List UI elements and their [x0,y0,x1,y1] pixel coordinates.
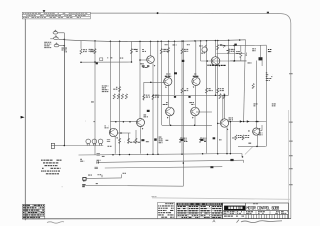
right inner border [288,110,290,219]
notes block [41,160,43,161]
wire V195b [194,86,196,108]
junction dot 19 [147,154,149,156]
fold mark 5 [289,168,292,169]
resistor R22 [135,138,137,143]
junction dot 11 [129,121,131,123]
wire V182 [181,41,183,153]
junction dot 9 [115,121,117,123]
wire h112 mid [196,111,212,113]
junction dot rail 11 [183,40,185,42]
junction dot 38 [224,95,226,97]
label rectifier [248,142,251,145]
resistor R18 [143,94,145,99]
wire base stub Q9 [218,122,221,124]
rectifier box bottom [238,145,266,147]
fold mark 4 [289,155,292,156]
value label 6 [111,56,113,59]
transistor Q10 [253,128,260,135]
junction dot rail 17 [228,39,230,41]
emitter arrow Q10 [259,128,261,130]
fuse F2 [54,37,59,40]
resistor R23 [179,137,181,142]
junction dot 35 [211,166,213,168]
value label 30 [254,103,256,106]
junction dot 36 [152,95,154,97]
value label 16 [80,158,82,161]
emitter arrow Q9 [227,128,229,130]
value label 36 [94,120,95,123]
diode CR5 [147,110,150,112]
label Q4 [193,76,196,77]
junction dot rail 7 [161,41,163,43]
junction dot 6 [233,60,235,62]
junction dot rail 16 [217,40,219,42]
wire V215 collector Q2 [215,41,217,57]
wire V243 bus drop2 [243,160,245,163]
value label 35 [85,120,87,123]
value label 24 [187,43,188,46]
fold mark 6 [289,184,292,185]
wire V215b emitter Q2 [215,65,217,95]
potentiometer P1 [202,47,207,52]
wire V222 [222,95,224,121]
wire V240 stub2 [240,57,242,60]
junction dot 2 [131,61,133,63]
value label 31 [272,103,274,106]
junction dot 13 [150,82,152,84]
emitter arrow Q5 [167,117,169,119]
pencil note left [47,222,64,224]
value label 27 [248,62,250,65]
value label 37 [130,141,133,144]
title col lines [229,211,270,215]
wire V140 collector Q7 [139,41,141,118]
emitter arrow Q8 [117,137,119,139]
component X1 [100,58,103,61]
wire h95 collector bus [153,94,229,96]
diode CR7 [174,96,176,98]
resistor R15 [117,94,119,99]
junction dot 17 [119,154,121,156]
resistor R28 [219,94,221,99]
wire h61 base Q2 [201,60,247,62]
junction dot rail 13 [200,40,202,42]
value label 17 [97,159,100,162]
diode CR4 [259,57,263,60]
right border [290,23,292,219]
diode CR6 [141,139,144,141]
rectifier box top [228,121,267,123]
junction dot 26 [230,153,232,155]
wire V266 wrap [265,45,267,146]
junction dot rail 14 [206,40,208,42]
resistor R25 [235,135,237,140]
sheet number ruler [246,214,288,218]
transistor Q1 [147,56,155,64]
label Q6 [189,101,192,104]
junction dot 3 [80,61,82,63]
value label 3 [142,48,144,51]
wire top border right segment [158,13,291,23]
stamp block [158,203,175,219]
logo plate [224,206,245,211]
label 2N Q2 [207,65,208,66]
value label 10 [227,49,229,52]
junction dot rail 9 [174,40,176,42]
junction dot 22 [181,153,183,155]
fold mark 2 [289,122,292,123]
wire V240 stub [240,45,242,52]
value label 1 [90,48,91,51]
junction dot 10 [123,121,125,123]
capacitor C3 [107,140,110,142]
value label 40 [133,141,135,144]
value label 28 [232,137,234,140]
emitter arrow Q6 [192,117,194,119]
tick T1 [101,175,103,177]
junction dot rail 8 [168,41,170,43]
wire V168 collector Q3 [168,41,170,77]
value label 45 [219,138,221,141]
wire V128 stub [128,133,130,144]
lamp DS3 [98,139,103,145]
junction dot 30 [256,146,258,148]
wire h60 relay [230,60,246,62]
value label 25 [220,43,222,46]
wire main rail [58,39,245,41]
junction dot 23 [202,153,204,155]
terminal T1 [83,178,86,181]
resistor R7 [217,45,219,50]
wire V131 [131,41,133,62]
diode CR17 [96,63,98,65]
fuse F1 [53,32,58,35]
resistor R16 [121,94,123,99]
input labels [44,41,47,44]
junction dot rail 4 [139,41,141,43]
emitter arrow Q7 [142,128,144,130]
wire V206 [206,41,208,154]
label 2N Q1 [142,65,145,66]
left border [24,19,26,220]
transistor Q2 [211,57,220,66]
zone arrow on left border [21,116,25,119]
value label 41 [146,140,149,143]
resistor R29 [223,94,225,99]
diode CR1 [240,120,243,122]
transistor Q9 [220,119,228,127]
diode CR16 [182,60,185,62]
label T1b [123,172,125,175]
resistor R5 [160,49,162,54]
resistor R14 [113,94,115,99]
thermal switch S1 [51,143,54,148]
junction dot 16 [112,154,114,156]
resistor R4 [167,48,169,53]
title row smudge [224,216,227,217]
resistor R2 [80,49,82,54]
junction dot 1 [94,61,96,63]
wire h133 Q8 out [118,132,131,134]
junction dot 12 [120,132,122,134]
junction dot fuse rail2 [64,45,66,47]
terminal T2 [82,184,85,185]
emitter arrow Q1 [154,65,156,67]
junction dot 5 [206,60,208,62]
resistor R21 [127,138,129,143]
capacitor C2 [95,167,98,169]
resistor R13 [252,84,254,89]
label Q10 [259,132,262,135]
value label 14 [159,136,162,139]
label Q8 [105,125,106,128]
diode CR2 [247,120,250,122]
junction dot 8 [64,145,66,147]
wire V231 [229,122,231,154]
wire base stub Q10b [261,125,263,131]
value label 15 [102,155,104,158]
wire V200 [200,41,202,61]
title text [246,206,248,209]
transistor Q5 [166,107,175,116]
wire h167 bus [105,167,223,168]
fold mark 1 [289,73,292,74]
pencil mark A [213,220,216,223]
junction dot rail 10 [181,40,183,42]
wire V183 long [182,41,184,186]
diode CR15 [234,44,236,46]
wire V-fuse [64,40,66,146]
wire V168b [168,86,170,108]
wire h62 [81,61,132,63]
wire V228 [228,40,230,95]
value label 11 [252,47,254,50]
resistor R6 [181,49,183,54]
transistor Q3 [164,77,172,85]
value label 26 [120,57,121,60]
resistor R27 [119,87,121,92]
wire V168c [169,116,171,126]
wire V224 collector Q9 [224,95,226,119]
diode CR11 [200,139,203,141]
wire V81 stub [80,41,82,49]
slash mark [245,147,253,155]
node label A [62,47,65,50]
value label 8 [203,50,205,53]
pencil label [152,195,155,198]
value label 4 [164,48,166,51]
wire V161 [160,41,162,125]
pencil note right [241,221,282,223]
emitter arrow Q2 [219,65,221,67]
connector J3 [97,161,99,163]
junction dot 20 [152,154,154,156]
wire h125 base bus R [162,124,212,126]
wire base stub Q10 [259,130,262,132]
wire V153 emitter Q1 [152,64,154,154]
title block frame [223,203,289,219]
junction dot top border [157,12,159,14]
resistor R10 [205,88,207,93]
diode CR10 [181,139,184,141]
junction dot secondary rail L [224,45,226,47]
wire base stub Q8 [109,132,110,134]
junction dot 32 [217,123,219,125]
value label 19 [96,182,98,185]
resistor R8 [228,49,230,54]
junction dot 21 [157,154,159,156]
wire rail end drop [244,40,246,122]
wire V174 [174,41,176,95]
value label 23 [165,43,166,46]
wire V143 stub [143,82,145,100]
wire V257 emitter Q10 [256,135,258,146]
fold mark 3 [289,141,292,142]
value label 18 [98,173,99,176]
value label 32 [248,130,250,133]
junction dot 28 [256,121,258,123]
junction dot rail 1 [94,40,96,42]
wire V136 stub [135,130,137,144]
junction dot 4 [139,59,141,61]
value label 20 [83,180,84,183]
mark on top border [267,12,269,14]
approval table [23,204,45,219]
junction dot 27 [243,121,245,123]
value label 42 [184,140,185,143]
value label 22 [173,44,176,47]
wire V260 feed [259,45,261,57]
title info row [224,210,226,213]
junction dot fuse rail [64,39,66,41]
wire fuse drop [63,33,65,146]
bottom border [22,218,291,220]
resistor R12 [181,88,183,93]
terminal marks right [268,49,269,50]
lamp DS1 [86,139,91,145]
junction dot rail 15 [215,40,217,42]
wire V95b [94,62,96,155]
value label 29 [242,137,245,140]
wire V195c [194,116,196,126]
junction dot 14 [170,125,172,127]
wire V95 [94,41,96,62]
value label 33 [91,101,94,104]
diode CR9 [154,138,157,140]
value label 34 [108,145,110,148]
resistor R17 [125,94,127,99]
value label 43 [204,140,206,143]
value label 2 [134,48,136,51]
junction dot secondary rail [233,45,235,47]
junction dot rail 12 [194,40,196,42]
label Q7 [144,114,147,117]
parts list table [177,203,223,219]
wire V115 emitter Q8 [114,137,116,154]
revision marker triangle [43,10,46,12]
diode CR13 [210,166,213,168]
transistor Q7 [137,119,145,127]
junction dot 7 [234,60,236,62]
wire V195 collector Q4 [195,41,197,78]
value label 38 [138,141,141,144]
value label 44 [166,139,169,142]
label Q3 [165,76,168,77]
value label 12 [102,85,104,88]
emitter arrow Q4 [193,86,195,88]
junction dot rail 6 [157,41,159,43]
wire h161 bus [98,160,244,162]
junction dot 29 [230,121,232,123]
wire h145 lamp row [65,145,104,147]
junction dot 33 [242,156,244,158]
wire base stub Q7 [137,121,138,124]
value label 21 [61,185,63,188]
wire V119 [119,41,121,153]
resistor R3 [130,49,132,54]
wire secondary rail [222,44,267,47]
resistor R1 [94,49,96,54]
resistor R24 [199,137,201,142]
junction dot 25 [226,153,228,155]
resistor R20 [119,138,121,143]
title caption [253,202,255,205]
diode CR14 [230,159,233,161]
wire T1 lead [86,177,121,180]
transistor Q4 [192,77,200,85]
wire V217 [217,40,219,153]
junction dot rail 18 [239,39,241,41]
resistor R19 [152,94,154,99]
wire h82 base Q3 [144,81,165,83]
wire top border left segment [90,12,157,14]
junction dot rail 2 [110,40,112,42]
junction dot 37 [215,95,217,97]
wire V150 collector Q1 [150,41,152,55]
wire V262 stub [261,61,263,67]
wire V110 base Q8 [109,41,111,132]
capacitor C1 [97,154,100,156]
pencil line lower [152,198,290,200]
wire T1 jog [120,174,122,178]
value label 9 [236,50,237,53]
value label 7 [140,62,143,65]
wire h154 bus [79,154,243,156]
resistor R9 [240,52,242,57]
junction dot rail 3 [119,41,121,43]
diode CR8 [188,96,190,98]
wire lamp feed [55,145,65,147]
wire T2 lead [86,184,183,187]
value label 5 [106,56,109,59]
label Q5 [166,101,168,104]
fuse F3 [54,44,59,47]
wire V256 collector Q10 [255,61,257,129]
emitter arrow Q3 [165,86,167,88]
revision table [22,12,90,19]
lamp DS2 [92,139,97,145]
wire V234 [234,45,236,61]
resistor R26 [242,135,244,140]
diode CR3 [174,72,177,74]
wire V140b emitter Q7 [140,127,142,154]
junction dot rail 5 [150,41,152,43]
junction dot 31 [257,121,259,123]
value label 39 [124,141,126,144]
transistor Q8 [109,128,117,136]
label T1 [88,174,90,177]
wire base Q1 feed [140,59,147,61]
